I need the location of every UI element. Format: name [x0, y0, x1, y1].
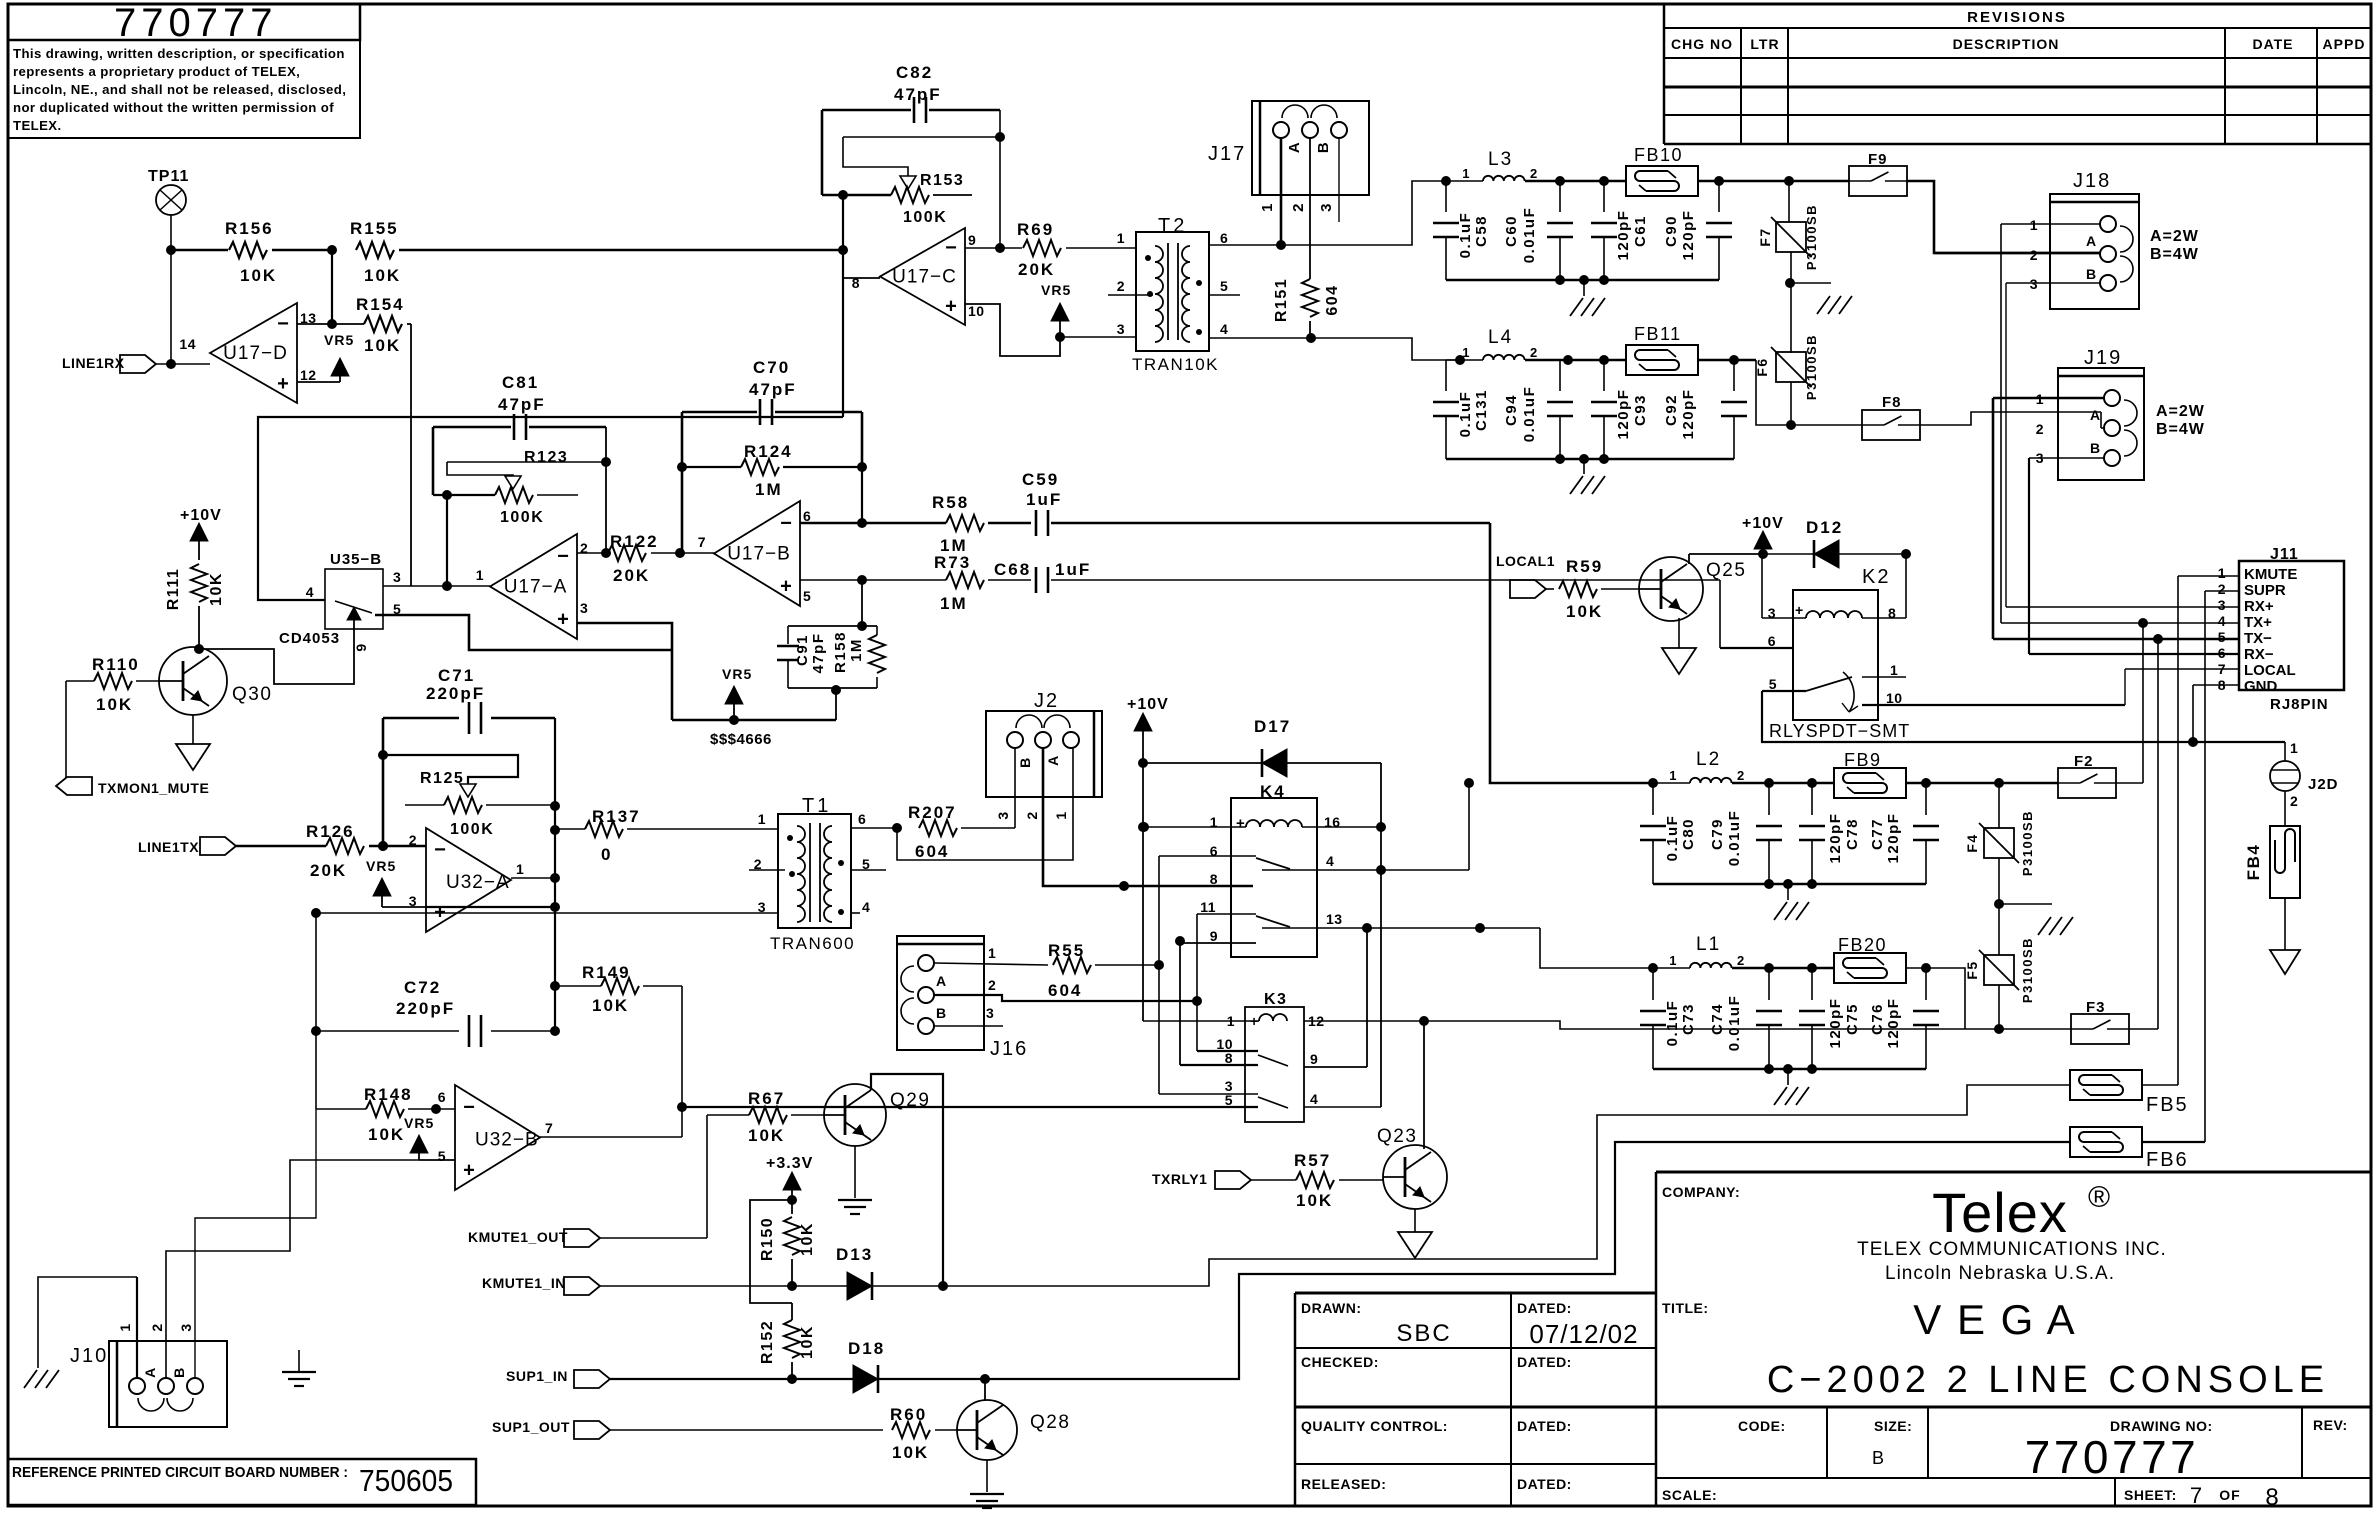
svg-text:1M: 1M	[848, 638, 865, 662]
svg-text:Lincoln, NE., and shall not be: Lincoln, NE., and shall not be released,…	[13, 82, 346, 97]
J11 pin1 KMUTE wire	[2178, 576, 2239, 1085]
svg-text:R158: R158	[832, 631, 849, 673]
capacitor C82	[822, 63, 1000, 123]
svg-text:C77: C77	[1869, 818, 1886, 850]
svg-text:−: −	[945, 237, 957, 259]
resistor R126 20K	[306, 822, 426, 880]
svg-text:3: 3	[986, 1005, 994, 1021]
op-amp U17-C	[852, 228, 985, 325]
svg-text:P3100SB: P3100SB	[1804, 334, 1819, 400]
title block frame	[8, 1172, 2371, 1506]
MOV F6	[1754, 334, 1819, 430]
svg-text:R151: R151	[1273, 278, 1290, 322]
wire R123 node down	[442, 495, 452, 591]
svg-text:LINE1RX: LINE1RX	[62, 355, 125, 371]
svg-text:2: 2	[149, 1322, 165, 1331]
svg-text:SIZE:: SIZE:	[1874, 1418, 1912, 1434]
svg-text:REFERENCE PRINTED CIRCUIT BOAR: REFERENCE PRINTED CIRCUIT BOARD NUMBER :	[12, 1464, 348, 1481]
connector J18	[2050, 170, 2139, 309]
Q23 emitter ground	[1398, 1209, 1432, 1258]
capacitor C92 120pF	[1663, 360, 1747, 459]
svg-text:07/12/02: 07/12/02	[1529, 1319, 1638, 1349]
multiplexer U35-B CD4053	[279, 551, 401, 647]
svg-text:1: 1	[1117, 230, 1125, 246]
wire J2 pin1 path	[897, 748, 1073, 860]
svg-text:2: 2	[988, 977, 996, 993]
svg-text:−: −	[277, 313, 289, 335]
capacitor C71 220pF	[383, 666, 555, 734]
svg-text:7: 7	[698, 534, 706, 550]
resistor R152 10K	[759, 1303, 816, 1379]
svg-text:R148: R148	[364, 1085, 413, 1104]
capacitor C70	[682, 358, 862, 425]
svg-text:C72: C72	[404, 978, 441, 997]
svg-text:7: 7	[2190, 1483, 2202, 1508]
svg-text:8: 8	[2265, 1484, 2278, 1511]
svg-text:4: 4	[306, 584, 314, 600]
svg-text:16: 16	[1324, 814, 1341, 830]
svg-text:6: 6	[858, 811, 866, 827]
wire K4-4 to L2 row	[1464, 778, 1474, 870]
resistor R111 10K	[165, 564, 225, 654]
feed vertical to K4-11 K3-10	[1192, 914, 1202, 1051]
J10 ground left	[22, 1370, 59, 1388]
svg-text:J2: J2	[1034, 690, 1059, 712]
resistor R67 10K	[707, 1089, 825, 1145]
svg-text:1M: 1M	[755, 480, 783, 499]
J17 pin1 wire	[1259, 138, 1281, 245]
J16 pin1 R55 604	[934, 941, 1159, 1000]
svg-text:F7: F7	[1757, 227, 1773, 246]
test point TP11	[148, 168, 189, 250]
resistor R207 604	[908, 803, 1015, 861]
svg-text:47pF: 47pF	[810, 632, 827, 673]
J19 A=2W B=4W	[2156, 403, 2205, 438]
T2 pin labels	[1117, 230, 1229, 337]
U35-B pin9 select	[199, 607, 369, 684]
svg-text:R154: R154	[356, 295, 405, 314]
svg-text:D18: D18	[848, 1339, 885, 1358]
svg-text:2: 2	[2030, 247, 2038, 263]
svg-text:CHECKED:: CHECKED:	[1301, 1354, 1379, 1370]
U35-B pin5 wire	[375, 615, 672, 650]
wire U17-C pin8	[843, 277, 880, 279]
capacitor C93 120pF	[1591, 360, 1649, 459]
svg-text:3: 3	[178, 1322, 194, 1331]
wire K4-13 to L1 row	[1362, 923, 1653, 968]
resistor R60 10K	[890, 1405, 957, 1462]
svg-text:120pF: 120pF	[1827, 813, 1844, 864]
svg-text:FB6: FB6	[2146, 1149, 2189, 1171]
svg-text:Telex: Telex	[1932, 1181, 2068, 1244]
svg-text:RJ8PIN: RJ8PIN	[2270, 696, 2329, 713]
bundle vertical J18p1-TXplus	[2000, 224, 2002, 623]
svg-text:+10V: +10V	[1742, 515, 1784, 532]
svg-text:U17−B: U17−B	[727, 544, 791, 565]
F4 ground stub	[1999, 904, 2073, 935]
svg-text:1: 1	[2290, 740, 2298, 756]
svg-text:TELEX COMMUNICATIONS INC.: TELEX COMMUNICATIONS INC.	[1857, 1239, 2167, 1260]
wire R155 to R154 node	[327, 250, 337, 329]
svg-text:C90: C90	[1663, 215, 1680, 247]
relay K4	[1231, 782, 1317, 957]
svg-text:120pF: 120pF	[1827, 998, 1844, 1049]
capacitor C80 0.1uF	[1640, 783, 1697, 884]
op-amp U17-A	[476, 534, 589, 639]
svg-text:LINE1TX: LINE1TX	[138, 839, 199, 855]
wire R149 net	[540, 986, 687, 1137]
feed vertical to K4-9 K3-8	[1179, 941, 1181, 1065]
svg-text:C75: C75	[1844, 1003, 1861, 1035]
J10 ground right	[282, 1350, 316, 1386]
svg-text:TXRLY1: TXRLY1	[1152, 1171, 1207, 1187]
svg-text:14: 14	[179, 336, 196, 352]
svg-text:R55: R55	[1048, 941, 1085, 960]
resistor R153 100K	[822, 172, 972, 226]
wire U32-A plus node	[426, 906, 555, 908]
fuse F2	[2058, 753, 2143, 798]
wire SUP long	[985, 1142, 2069, 1379]
svg-text:770777: 770777	[2025, 1431, 2200, 1483]
svg-text:9: 9	[1210, 928, 1218, 944]
svg-text:LOCAL: LOCAL	[2244, 662, 2296, 679]
J11 pin7 LOCAL wire	[2125, 669, 2239, 705]
svg-text:5: 5	[2218, 629, 2226, 645]
svg-text:RELEASED:: RELEASED:	[1301, 1476, 1386, 1492]
svg-text:+: +	[463, 1159, 475, 1181]
Q28 collector	[984, 1379, 986, 1401]
svg-text:2: 2	[409, 832, 417, 848]
resistor R57 10K	[1294, 1151, 1384, 1210]
capacitor C91 47pF	[777, 626, 827, 688]
J16 pin3 stub	[934, 1005, 1003, 1026]
svg-text:1M: 1M	[940, 594, 968, 613]
svg-text:1: 1	[2030, 217, 2038, 233]
FB4 ground	[2270, 950, 2300, 974]
svg-text:770777: 770777	[114, 1, 277, 45]
capacitor C73 0.1uF	[1640, 968, 1697, 1069]
svg-text:J17: J17	[1208, 143, 1246, 165]
svg-text:750605: 750605	[359, 1463, 453, 1498]
svg-text:604: 604	[1324, 284, 1341, 315]
capacitor C78 120pF	[1799, 783, 1861, 884]
svg-text:5: 5	[1220, 278, 1228, 294]
resistor R150 10K	[759, 1217, 816, 1286]
svg-text:B: B	[1872, 1448, 1884, 1468]
svg-text:RX+: RX+	[2244, 598, 2274, 615]
wire J10 riser B	[195, 1109, 316, 1378]
T2 windings	[1145, 243, 1202, 342]
svg-text:C94: C94	[1503, 394, 1520, 426]
svg-text:B=4W: B=4W	[2156, 421, 2205, 438]
connector J16	[897, 936, 1028, 1060]
drawn / dated rows	[1301, 1300, 1639, 1492]
svg-text:0.01uF: 0.01uF	[1726, 810, 1743, 867]
op-amp U32-B	[438, 1085, 554, 1190]
svg-text:K3: K3	[1264, 991, 1287, 1008]
title box 770777 top-left	[8, 1, 360, 138]
svg-text:3: 3	[580, 600, 588, 616]
vr5 bias at U17-D pin12	[297, 332, 354, 382]
svg-text:J2D: J2D	[2308, 776, 2339, 793]
wire D17 to K4 pin16	[1376, 763, 1386, 1107]
resistor R155	[350, 219, 842, 285]
wire U17-C pin9	[965, 247, 1022, 249]
resistor R156	[225, 219, 332, 285]
svg-text:3: 3	[1318, 202, 1335, 212]
J11 pin5 TXminus wire	[1993, 634, 2239, 644]
J11 pin4 TXplus wire	[2001, 618, 2239, 628]
MOV F5	[1964, 937, 2035, 1034]
svg-text:U32−A: U32−A	[446, 872, 510, 893]
T1 stubs	[749, 869, 886, 871]
svg-text:C−2002 2 LINE CONSOLE: C−2002 2 LINE CONSOLE	[1767, 1359, 2329, 1401]
svg-text:C71: C71	[438, 666, 475, 685]
svg-text:C80: C80	[1680, 818, 1697, 850]
svg-text:TITLE:: TITLE:	[1662, 1300, 1709, 1316]
svg-text:10K: 10K	[208, 572, 225, 606]
svg-text:D12: D12	[1806, 518, 1843, 537]
svg-text:+3.3V: +3.3V	[766, 1155, 813, 1172]
svg-text:R73: R73	[934, 553, 971, 572]
op-amp U32-A	[409, 828, 525, 932]
svg-text:+10V: +10V	[180, 507, 222, 524]
svg-text:10K: 10K	[748, 1126, 785, 1145]
svg-text:P3100SB: P3100SB	[2020, 810, 2035, 876]
svg-text:6: 6	[1220, 230, 1228, 246]
svg-text:10K: 10K	[1296, 1191, 1333, 1210]
code size drawing rev	[1738, 1417, 2348, 1483]
svg-text:FB4: FB4	[2244, 844, 2263, 881]
svg-text:CODE:: CODE:	[1738, 1418, 1786, 1434]
svg-text:U35−B: U35−B	[330, 551, 382, 568]
wire R153 wiper	[843, 137, 1000, 189]
svg-text:+: +	[557, 608, 569, 630]
svg-text:J19: J19	[2084, 347, 2122, 369]
svg-text:220pF: 220pF	[426, 684, 485, 703]
svg-text:TRAN600: TRAN600	[770, 934, 855, 953]
relay K3	[1245, 991, 1304, 1122]
svg-text:CD4053: CD4053	[279, 630, 340, 647]
inductor L3	[1441, 149, 1626, 186]
svg-text:KMUTE: KMUTE	[2244, 566, 2297, 583]
J11 pin2 SUPR wire	[2205, 591, 2239, 1142]
svg-text:SUP1_IN: SUP1_IN	[506, 1368, 568, 1384]
svg-text:100K: 100K	[450, 821, 494, 838]
wire J10 riser A	[166, 1160, 419, 1378]
J11 pin numbers	[2218, 565, 2226, 693]
svg-text:R150: R150	[759, 1217, 776, 1261]
MOV F7	[1757, 181, 1819, 353]
K4 switch rows 11-13-9	[1175, 899, 1540, 946]
Q29 collector wire	[871, 1074, 943, 1282]
svg-text:C79: C79	[1709, 818, 1726, 850]
svg-text:J10: J10	[70, 1345, 108, 1367]
svg-text:D13: D13	[836, 1245, 873, 1264]
svg-text:CHG NO: CHG NO	[1671, 36, 1733, 52]
svg-text:REVISIONS: REVISIONS	[1967, 9, 2067, 26]
capacitor C61 120pF	[1591, 181, 1649, 280]
J2 pin3 wire	[995, 748, 1015, 828]
svg-text:6: 6	[438, 1089, 446, 1105]
svg-text:−: −	[557, 545, 569, 567]
svg-text:LOCAL1: LOCAL1	[1496, 553, 1555, 569]
svg-text:3: 3	[2218, 597, 2226, 613]
svg-text:A=2W: A=2W	[2156, 403, 2205, 420]
svg-text:R67: R67	[748, 1089, 785, 1108]
svg-text:C61: C61	[1632, 215, 1649, 247]
op-amp U17-D	[179, 303, 316, 403]
U35-B pin3 wire	[383, 585, 490, 587]
svg-text:47pF: 47pF	[749, 380, 797, 399]
vr5 bias at U32-B pin5	[404, 1115, 455, 1160]
svg-text:2: 2	[2290, 793, 2298, 809]
wire TXplus down to F2	[2142, 623, 2144, 783]
wire C91 R158 node	[788, 580, 877, 631]
svg-text:3: 3	[1117, 321, 1125, 337]
connector J17	[1208, 101, 1369, 195]
svg-text:B: B	[1017, 756, 1033, 768]
K4 coil row	[1139, 814, 1381, 832]
Q25 emitter ground	[1662, 618, 1696, 674]
svg-text:100K: 100K	[903, 209, 947, 226]
R125 wiper wire	[383, 755, 518, 797]
svg-text:FB5: FB5	[2146, 1094, 2189, 1116]
J18 A=2W B=4W	[2150, 228, 2199, 263]
svg-text:B=4W: B=4W	[2150, 246, 2199, 263]
transistor Q25	[1639, 557, 1746, 621]
transistor Q28	[957, 1379, 1070, 1460]
svg-text:20K: 20K	[310, 861, 347, 880]
connector J2	[986, 690, 1102, 797]
K2 pin6	[1720, 580, 1793, 649]
svg-text:R111: R111	[165, 568, 182, 610]
svg-text:R110: R110	[92, 655, 140, 674]
svg-text:SUP1_OUT: SUP1_OUT	[492, 1419, 570, 1435]
wire T1 pin6 R207 node	[851, 823, 902, 833]
svg-text:C58: C58	[1473, 215, 1490, 247]
svg-text:2: 2	[1024, 810, 1040, 819]
svg-text:1: 1	[1890, 662, 1898, 678]
svg-text:Q30: Q30	[232, 684, 272, 705]
Q30 emitter ground	[176, 715, 210, 770]
svg-text:9: 9	[353, 642, 369, 651]
svg-text:DATED:: DATED:	[1517, 1476, 1572, 1492]
connector J10	[70, 1341, 227, 1427]
svg-text:C59: C59	[1022, 470, 1059, 489]
J18 pin wires	[1934, 217, 2100, 292]
ferrite bead FB6	[2070, 1127, 2205, 1171]
svg-text:2: 2	[2036, 421, 2044, 437]
MOV F4	[1964, 783, 2035, 955]
svg-text:10K: 10K	[364, 266, 401, 285]
svg-text:VR5: VR5	[404, 1115, 434, 1131]
wire F5 to F3	[1965, 1028, 2071, 1030]
svg-text:120pF: 120pF	[1680, 389, 1697, 440]
svg-text:0.1uF: 0.1uF	[1664, 815, 1681, 862]
op-amp U17-B	[698, 501, 812, 606]
svg-text:120pF: 120pF	[1615, 210, 1632, 261]
capacitor C77 120pF	[1869, 783, 1939, 884]
svg-text:0: 0	[601, 845, 612, 864]
svg-text:1: 1	[988, 945, 996, 961]
K2 pin1	[1862, 662, 1906, 678]
company name Telex logo	[1662, 1181, 2167, 1284]
wire FB20 to F5 node	[1926, 968, 1965, 1029]
svg-text:SUPR: SUPR	[2244, 582, 2286, 599]
svg-text:10K: 10K	[592, 996, 629, 1015]
svg-text:R58: R58	[932, 493, 969, 512]
capacitor C75 120pF	[1799, 968, 1861, 1069]
svg-text:2: 2	[2218, 581, 2226, 597]
svg-text:KMUTE1_IN: KMUTE1_IN	[482, 1275, 566, 1291]
svg-text:V E G A: V E G A	[1913, 1296, 2076, 1343]
fuse F9	[1849, 151, 2099, 253]
resistor R137 0	[555, 807, 778, 864]
F7 ground stub	[1790, 283, 1852, 314]
capacitor C68 1uF	[994, 560, 1720, 593]
resistor R125 100K	[405, 770, 555, 838]
ferrite bead FB5	[2070, 1070, 2189, 1116]
inductor L2	[1648, 749, 1834, 788]
svg-text:3: 3	[393, 569, 401, 585]
bundle vertical J19p3-RXminus	[2028, 458, 2030, 654]
svg-text:5: 5	[803, 588, 811, 604]
wire T1pin3 node	[311, 908, 682, 1109]
C71 loop verticals	[378, 718, 560, 1036]
svg-text:DATED:: DATED:	[1517, 1354, 1572, 1370]
svg-text:L2: L2	[1696, 749, 1721, 770]
svg-text:R156: R156	[225, 219, 274, 238]
svg-text:A: A	[1286, 141, 1303, 153]
svg-text:U17−C: U17−C	[892, 267, 957, 288]
svg-text:+: +	[780, 575, 792, 597]
net tag SUP1_IN	[506, 1368, 853, 1388]
svg-text:A: A	[2086, 233, 2097, 249]
svg-text:SHEET:: SHEET:	[2124, 1487, 2177, 1503]
wire T1 pin3	[682, 912, 778, 914]
Q28 emitter ground	[970, 1460, 1004, 1508]
svg-text:10K: 10K	[96, 695, 133, 714]
svg-text:−: −	[463, 1096, 475, 1118]
diode D12	[1763, 518, 1911, 568]
wire KMUTE long	[943, 1085, 2069, 1286]
svg-text:C78: C78	[1844, 818, 1861, 850]
svg-text:10: 10	[1886, 690, 1903, 706]
svg-text:8: 8	[1210, 871, 1218, 887]
svg-text:0.1uF: 0.1uF	[1457, 391, 1474, 438]
K3 rows 10-8-9	[1180, 1036, 1367, 1067]
svg-text:Q28: Q28	[1030, 1412, 1070, 1433]
J17 pin2 wire	[1290, 138, 1310, 279]
wire C59 down to L2 row	[1490, 523, 1653, 783]
svg-text:VR5: VR5	[1041, 282, 1071, 298]
svg-text:DATED:: DATED:	[1517, 1300, 1572, 1316]
svg-text:C60: C60	[1503, 215, 1520, 247]
svg-text:B: B	[1315, 141, 1332, 153]
wire T1 pin4 to K4 row8	[851, 912, 860, 914]
capacitor C74 0.01uF	[1709, 968, 1782, 1069]
vr5 bias node 4666	[672, 666, 836, 748]
svg-text:0.01uF: 0.01uF	[1726, 995, 1743, 1052]
capacitor C58 0.1uF	[1433, 181, 1490, 280]
svg-text:220pF: 220pF	[396, 999, 455, 1018]
capacitor C81	[433, 373, 606, 440]
svg-text:APPD: APPD	[2323, 36, 2366, 52]
svg-text:C70: C70	[753, 358, 790, 377]
svg-text:4: 4	[2218, 613, 2226, 629]
L4 cap ground rail	[1446, 454, 1734, 494]
